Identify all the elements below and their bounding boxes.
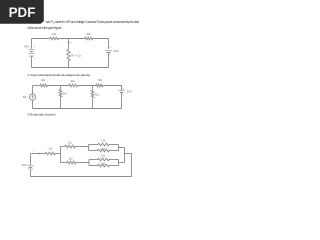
problem 1 text line 2 (27, 26, 62, 30)
resistor R2 3ohm (84, 37, 94, 40)
resistor R11 1ohm (97, 149, 110, 152)
svg-text:wer P₁, current Iₗ=V/R and vol: wer P₁, current Iₗ=V/R and voltage Vₗ ac… (46, 20, 140, 24)
resistor R7 1ohm (45, 152, 57, 155)
resistor R6 6ohm vertical (91, 86, 94, 109)
wire upper block output (119, 147, 125, 149)
resistor R9 1ohm (66, 161, 77, 164)
resistor R12 1ohm (97, 158, 110, 161)
wire lower block row1 leads (89, 159, 119, 161)
PDF badge label (9, 5, 36, 20)
wire C2 bottom (33, 108, 122, 110)
wire C2 top-left segment (33, 85, 40, 87)
label V3 10V (127, 90, 132, 94)
wire C3 bottom (31, 176, 132, 178)
resistor RL 1ohm (67, 49, 70, 62)
label R8 1ohm (68, 140, 73, 144)
battery V1 24V (28, 39, 34, 68)
label R5 5ohm (98, 78, 103, 82)
resistor R13 1ohm (97, 164, 110, 167)
wire C3 top with current arrow (31, 153, 45, 155)
battery V3 10V (118, 91, 124, 109)
svg-text:Rₗ = 1Ω: Rₗ = 1Ω (71, 54, 81, 58)
battery V4 10V (27, 154, 34, 177)
wire C1 top-middle segment (59, 38, 84, 40)
wire lower block output (119, 162, 125, 164)
label R3 6ohm (41, 78, 46, 82)
label R4 2ohm (63, 92, 68, 96)
svg-text:6Ω: 6Ω (41, 78, 46, 82)
wire upper block row2 leads (89, 150, 119, 152)
svg-text:5Ω: 5Ω (98, 78, 103, 82)
label V2 minus (110, 55, 112, 58)
label V3 minus (122, 94, 124, 97)
svg-text:2. Using nodal analysis, find: 2. Using nodal analysis, find all node v… (27, 73, 90, 77)
resistor R3b 2ohm (68, 84, 78, 87)
label R1 2ohm (52, 32, 57, 36)
node lower block left bar (88, 160, 90, 166)
wire upper branch lead (61, 146, 65, 148)
wire C1 load branch bottom (68, 62, 70, 68)
node lower block right bar (118, 160, 120, 166)
current source I1 6A (29, 86, 35, 109)
svg-text:10V: 10V (21, 163, 26, 167)
label I1 6A (23, 95, 27, 99)
wire C2 top segment 3 (78, 85, 95, 87)
node split bar (60, 147, 62, 163)
wire C2 top-right segment (104, 86, 122, 91)
label R2 3ohm (87, 32, 92, 36)
svg-text:24V: 24V (24, 44, 29, 48)
resistor R3 6ohm (39, 84, 48, 87)
label V4 10V (21, 163, 26, 167)
svg-text:3Ω: 3Ω (87, 32, 92, 36)
label R6 6ohm (95, 92, 100, 96)
label RL value (71, 54, 81, 58)
wire C1 top-left segment (32, 38, 49, 40)
svg-text:2Ω: 2Ω (52, 32, 57, 36)
label IL current (70, 41, 72, 45)
wire upper branch to block (76, 146, 89, 148)
svg-text:10V: 10V (127, 90, 132, 94)
svg-text:20V: 20V (114, 49, 119, 53)
problem 3 text (27, 112, 56, 116)
label R3b 2ohm (71, 79, 76, 83)
problem 1 text line 1 (46, 20, 140, 24)
resistor R10 1ohm (97, 143, 110, 146)
svg-text:PDF: PDF (9, 5, 36, 20)
node join bar right (124, 148, 126, 163)
label V1 plus (34, 45, 36, 48)
resistor R5 5ohm (95, 84, 104, 87)
PDF badge (0, 0, 44, 24)
label V1 24V (24, 44, 29, 48)
wire upper block row1 leads (89, 144, 119, 146)
wire C1 bottom (32, 67, 109, 69)
svg-text:of the circuit in the given fi: of the circuit in the given figure (27, 26, 62, 30)
wire lower block row2 leads (89, 165, 119, 167)
node upper block right bar (118, 145, 120, 151)
label R11 1ohm (101, 147, 106, 151)
label R13 1ohm (101, 162, 106, 166)
label V1 minus (34, 57, 36, 60)
label R7 1ohm (48, 146, 53, 150)
label V3 plus (122, 87, 124, 90)
resistor R1 2ohm (49, 37, 59, 40)
wire lower branch lead (61, 162, 67, 164)
node upper block left bar (88, 145, 90, 151)
label I current (33, 148, 34, 152)
label R12 1ohm (101, 154, 106, 158)
wire lower branch to block (77, 162, 89, 164)
svg-text:3. Find the value of current I: 3. Find the value of current I (27, 112, 56, 116)
wire C1 top-right segment (94, 39, 109, 49)
wire C2 top segment 2 (48, 85, 68, 87)
wire C3 to split node (56, 153, 61, 155)
problem 2 text (27, 73, 90, 77)
label V2 20V (114, 49, 119, 53)
wire C1 load branch top with current arrow (68, 39, 70, 49)
svg-text:6A: 6A (23, 95, 27, 99)
resistor R4 2ohm vertical (59, 86, 62, 109)
label V2 plus (110, 46, 112, 49)
battery V2 20V (105, 51, 112, 68)
label R9 1ohm (69, 156, 74, 160)
label R10 1ohm (101, 139, 106, 143)
wire output tap (125, 154, 132, 177)
resistor R8 1ohm (64, 145, 76, 148)
svg-text:2Ω: 2Ω (71, 79, 76, 83)
